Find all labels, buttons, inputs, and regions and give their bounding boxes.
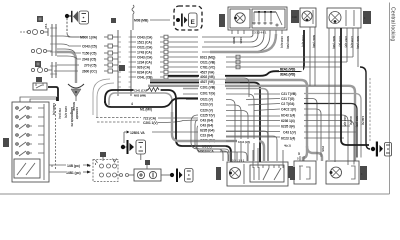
svg-text:4002 (VB): 4002 (VB)	[200, 75, 215, 79]
svg-text:C21 T(G): C21 T(G)	[281, 97, 294, 101]
svg-text:1234 (CA): 1234 (CA)	[137, 60, 152, 64]
svg-text:M002/VCA: M002/VCA	[198, 149, 214, 153]
svg-text:C785 1(V): C785 1(V)	[350, 36, 354, 48]
svg-text:4527 (VA): 4527 (VA)	[200, 70, 214, 74]
svg-text:12A1 (VA): 12A1 (VA)	[238, 140, 250, 144]
svg-text:x: x	[51, 163, 53, 168]
svg-text:M03 (MM): M03 (MM)	[134, 94, 146, 98]
svg-text:12B01 VA: 12B01 VA	[130, 131, 145, 135]
svg-text:82A1 (VD): 82A1 (VD)	[280, 68, 295, 72]
svg-text:M007 (M0): M007 (M0)	[356, 36, 360, 49]
svg-text:722 (CA): 722 (CA)	[143, 117, 156, 121]
svg-text:2600 (CC): 2600 (CC)	[82, 70, 97, 74]
svg-text:Central locking: Central locking	[390, 7, 396, 41]
svg-text:C043 (CA): C043 (CA)	[137, 55, 152, 59]
svg-text:C043: C043	[239, 37, 243, 44]
svg-text:C2 T(G4): C2 T(G4)	[281, 102, 294, 106]
svg-text:C201 1(V): C201 1(V)	[143, 121, 158, 125]
svg-text:C21 T(VB): C21 T(VB)	[281, 92, 296, 96]
svg-text:C021 (VB): C021 (VB)	[200, 60, 215, 64]
svg-text:4(a.1): 4(a.1)	[284, 144, 291, 148]
svg-text:C43 (G4): C43 (G4)	[200, 118, 213, 122]
svg-text:C021 (CA): C021 (CA)	[137, 45, 152, 49]
svg-text:C781 (VC): C781 (VC)	[200, 65, 215, 69]
svg-text:C041 (CA): C041 (CA)	[134, 88, 147, 92]
svg-text:C201 T(G): C201 T(G)	[200, 91, 215, 95]
svg-text:E: E	[191, 19, 196, 26]
svg-text:M007 (M0): M007 (M0)	[312, 35, 316, 48]
svg-text:1521 (CA): 1521 (CA)	[137, 40, 152, 44]
svg-text:POS: POS	[321, 146, 325, 152]
svg-text:C043 1(C): C043 1(C)	[280, 36, 284, 48]
svg-text:C43 (G4): C43 (G4)	[200, 123, 213, 127]
svg-text:6236 1(4): 6236 1(4)	[281, 119, 295, 123]
svg-text:5: 5	[298, 152, 300, 156]
svg-text:4787 1(V): 4787 1(V)	[344, 36, 348, 48]
svg-text:console: console	[75, 107, 79, 119]
svg-text:C201 (VB): C201 (VB)	[200, 85, 215, 89]
svg-text:6C23 1(4): 6C23 1(4)	[281, 137, 295, 141]
svg-text:M000 (M0): M000 (M0)	[286, 36, 290, 49]
svg-text:14B (po): 14B (po)	[67, 164, 80, 168]
svg-text:M00 (M0): M00 (M0)	[355, 116, 359, 127]
svg-text:M000 1(VA): M000 1(VA)	[80, 36, 97, 40]
svg-text:722 (CA): 722 (CA)	[58, 108, 62, 119]
svg-text:C043 (C5): C043 (C5)	[82, 45, 97, 49]
svg-text:1 3 1 2 4 6 1: 1 3 1 2 4 6 1	[252, 31, 267, 35]
svg-text:6021 (MQ): 6021 (MQ)	[200, 55, 215, 59]
svg-text:Diagnosis ec: Diagnosis ec	[70, 107, 74, 127]
svg-text:6235 (G4): 6235 (G4)	[200, 128, 214, 132]
svg-text:2043 (C5): 2043 (C5)	[82, 58, 96, 62]
svg-text:4C2 (V): 4C2 (V)	[349, 116, 353, 125]
svg-text:270 (C5): 270 (C5)	[84, 64, 96, 68]
svg-text:6C43 1(4): 6C43 1(4)	[281, 114, 295, 118]
svg-text:C787 (V): C787 (V)	[338, 36, 342, 47]
svg-text:V785 1(V): V785 1(V)	[301, 35, 305, 47]
svg-text:C043 (CA): C043 (CA)	[137, 35, 152, 39]
svg-text:926 (CA): 926 (CA)	[137, 65, 150, 69]
svg-text:14B1 (po): 14B1 (po)	[66, 171, 81, 175]
svg-text:T150 (C5): T150 (C5)	[82, 52, 96, 56]
svg-text:4: 4	[131, 102, 133, 106]
svg-text:C223 (V): C223 (V)	[200, 102, 213, 106]
svg-text:12B (V): 12B (V)	[361, 116, 365, 125]
svg-text:C4C2 1(V): C4C2 1(V)	[281, 108, 296, 112]
svg-text:C021 (V): C021 (V)	[200, 97, 213, 101]
svg-text:C201 1(V): C201 1(V)	[64, 106, 68, 118]
svg-text:C220 (V): C220 (V)	[200, 108, 213, 112]
svg-text:C5 1: C5 1	[44, 23, 48, 29]
svg-text:M1 (M0): M1 (M0)	[140, 108, 152, 112]
svg-text:19B: 19B	[292, 15, 297, 19]
svg-text:6235 3(4): 6235 3(4)	[281, 125, 295, 129]
svg-text:4527 (VB): 4527 (VB)	[200, 80, 215, 84]
svg-text:6234 (CA): 6234 (CA)	[137, 70, 152, 74]
svg-text:M000: M000	[232, 37, 236, 44]
svg-text:5 1: 5 1	[297, 157, 301, 161]
svg-text:C43 1(V): C43 1(V)	[343, 116, 347, 127]
svg-text:C43 1(V): C43 1(V)	[283, 131, 296, 135]
svg-text:33A1 (VD): 33A1 (VD)	[280, 72, 295, 76]
svg-text:1743 (CA): 1743 (CA)	[137, 50, 152, 54]
svg-text:C23 (G4): C23 (G4)	[200, 133, 213, 137]
svg-text:M007 (M0): M007 (M0)	[332, 36, 336, 49]
svg-text:M08 (MB): M08 (MB)	[134, 19, 148, 23]
svg-text:C225 T(V): C225 T(V)	[200, 113, 215, 117]
